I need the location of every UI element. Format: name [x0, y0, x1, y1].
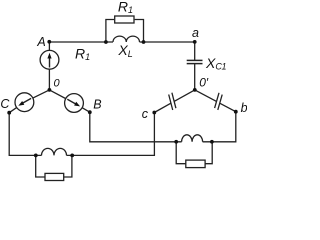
wire source to O: [48, 69, 50, 90]
junction top combo left: [104, 40, 108, 44]
svg-text:0: 0: [54, 78, 61, 90]
junction bottom left combo right: [70, 154, 74, 158]
svg-text:R1: R1: [118, 0, 133, 15]
svg-text:B: B: [93, 97, 101, 111]
wire O' to b upper segment: [195, 90, 217, 102]
wire resistor branch bottom right: [176, 142, 186, 164]
wire bottom to c riser: [67, 113, 155, 156]
wire B down and across: [90, 112, 182, 142]
svg-text:XL: XL: [117, 42, 132, 59]
svg-text:0′: 0′: [199, 75, 209, 89]
wire C down and bottom left: [9, 113, 41, 156]
junction top combo right: [142, 40, 146, 44]
wire O' to c lower segment: [154, 103, 171, 112]
wire resistor branch bottom left: [36, 155, 45, 177]
capacitor in O'-b branch: [215, 93, 219, 108]
inductor bottom right: [182, 135, 203, 142]
source EC: [15, 93, 34, 112]
wire O to B: [49, 90, 89, 112]
resistor R1 (top box): [115, 16, 134, 23]
source EB: [65, 94, 84, 113]
arrowhead source EC: [18, 101, 24, 106]
junction bottom right combo right: [210, 140, 214, 144]
node b: [234, 110, 238, 114]
node C: [7, 111, 11, 115]
wire O' to b lower segment: [220, 103, 236, 112]
resistor bottom left box: [45, 173, 64, 180]
wire stub left of resistor R1 top: [106, 20, 114, 43]
capacitor in O'-c branch: [172, 93, 176, 109]
svg-text:A: A: [36, 35, 45, 49]
wire O' to c upper segment: [174, 90, 195, 102]
svg-text:b: b: [241, 101, 247, 115]
svg-text:R1: R1: [75, 45, 90, 62]
svg-text:a: a: [192, 26, 199, 40]
wire resistor branch bottom right right side: [205, 142, 212, 164]
svg-text:XC1: XC1: [205, 55, 226, 72]
wire top A to inductor: [49, 41, 113, 43]
wire a down to capacitor: [194, 42, 196, 60]
resistor bottom right box: [186, 160, 205, 168]
wire A to source: [48, 42, 50, 51]
source EA: [40, 50, 59, 69]
wire capacitor to O': [194, 64, 196, 90]
junction bottom right combo left: [174, 140, 178, 144]
node c: [152, 111, 156, 115]
arrowhead source EA: [47, 53, 51, 59]
wire stub right of resistor R1 top: [135, 20, 144, 43]
node a: [193, 40, 197, 44]
node O': [193, 88, 197, 92]
node A: [47, 40, 51, 44]
wire resistor branch bottom left right side: [64, 155, 72, 177]
inductor XL: [113, 36, 140, 42]
inductor bottom left: [42, 148, 67, 155]
node O: [48, 88, 52, 92]
node B: [88, 110, 92, 114]
svg-text:c: c: [142, 107, 149, 121]
capacitor XC1: [187, 60, 203, 63]
wire inductor to node a: [140, 41, 195, 43]
svg-text:C: C: [0, 97, 10, 111]
wire O to C: [9, 90, 49, 113]
arrowhead source EB: [74, 102, 80, 107]
junction bottom left combo left: [34, 154, 38, 158]
wire inductor to b riser: [203, 112, 236, 142]
